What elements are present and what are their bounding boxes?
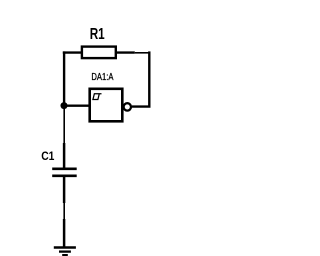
node junction dot xyxy=(61,102,68,109)
wire thin (capacitor to ground lead) xyxy=(63,203,65,219)
output inversion bubble xyxy=(124,103,131,110)
svg-text:R1: R1 xyxy=(90,26,105,43)
wire thin (resistor to top-right corner) xyxy=(135,52,150,54)
wire left vertical thin (node to capacitor) xyxy=(63,108,65,144)
capacitor C1 xyxy=(52,143,76,203)
svg-text:DA1:A: DA1:A xyxy=(91,72,113,83)
wire right vertical xyxy=(148,51,150,106)
wire top-left horizontal (corner to resistor) xyxy=(63,51,82,53)
wire left vertical (corner to node) xyxy=(63,51,65,105)
Schmitt-trigger inverter DA1:A body xyxy=(90,89,123,122)
hysteresis symbol xyxy=(92,94,101,100)
ground xyxy=(54,248,76,256)
resistor R1 xyxy=(82,47,135,59)
wire ground lead xyxy=(63,219,66,247)
wire inverter input xyxy=(64,104,89,106)
wire output horizontal xyxy=(132,105,151,107)
svg-text:C1: C1 xyxy=(41,149,54,163)
